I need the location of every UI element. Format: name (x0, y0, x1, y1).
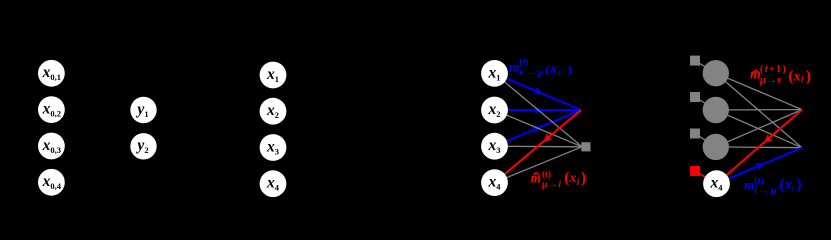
node g1 (gray circle) (703, 60, 729, 86)
node x1 (panel 2) (260, 62, 287, 89)
wire x2 to factor square (gray) (495, 110, 583, 147)
label red message mhat^(t)_{mu->i}(x_i) (531, 169, 587, 190)
wire g3 to T2 (716, 146, 802, 149)
prior factor square (gray) row1 (690, 56, 700, 66)
node x03 (38, 133, 65, 160)
wire prior square to g3 (695, 134, 716, 147)
wire x1 to factor square (gray) (495, 73, 583, 146)
node x4 (panel 4) (703, 170, 730, 197)
message edge T1 to x4 (red) (717, 110, 803, 184)
node x02 (38, 96, 65, 123)
wire red prior square to x4 (695, 171, 716, 184)
wire x3 to factor square (gray) (495, 145, 583, 148)
message edge x3 to mu (blue) (495, 110, 582, 146)
node y2 (130, 133, 156, 159)
node x3 (panel 2) (260, 134, 287, 161)
wire x4 to factor square (gray) (495, 147, 583, 183)
prior factor square (gray) row2 (690, 92, 700, 102)
node x3 (panel 3) (481, 133, 508, 160)
node x4 (panel 3) (481, 169, 508, 196)
node g2 (gray circle) (703, 97, 729, 123)
node x4 (panel 2) (260, 170, 287, 197)
prior factor square (red) row4 (690, 166, 700, 176)
message edge x2 to mu (blue) (495, 106, 582, 114)
wire prior square to g1 (695, 61, 716, 74)
node x2 (panel 3) (481, 97, 508, 124)
message edge x4 to T2 (blue) (717, 148, 803, 184)
wire g1 to T2 (716, 73, 802, 148)
wire g2 to T1 (716, 109, 802, 111)
node y1 (130, 97, 156, 123)
message edge mu to x4 (red) (495, 110, 582, 183)
node g3 (gray circle) (703, 134, 729, 160)
wire g3 to T1 (716, 110, 802, 147)
node x2 (panel 2) (260, 98, 287, 125)
factor square mu' (gray) (581, 142, 590, 151)
wire g2 to T2 (716, 110, 802, 148)
node x1 (panel 3) (481, 60, 508, 87)
label red message mhat^(t+1)_{mu->nu}(x_i) (750, 64, 811, 86)
node x04 (38, 169, 65, 196)
message edge x1 to mu (blue) (495, 73, 582, 110)
node x01 (38, 60, 65, 87)
wire g1 to T1 (716, 73, 802, 109)
wire prior square to g2 (695, 97, 716, 110)
prior factor square (gray) row3 (690, 129, 700, 139)
